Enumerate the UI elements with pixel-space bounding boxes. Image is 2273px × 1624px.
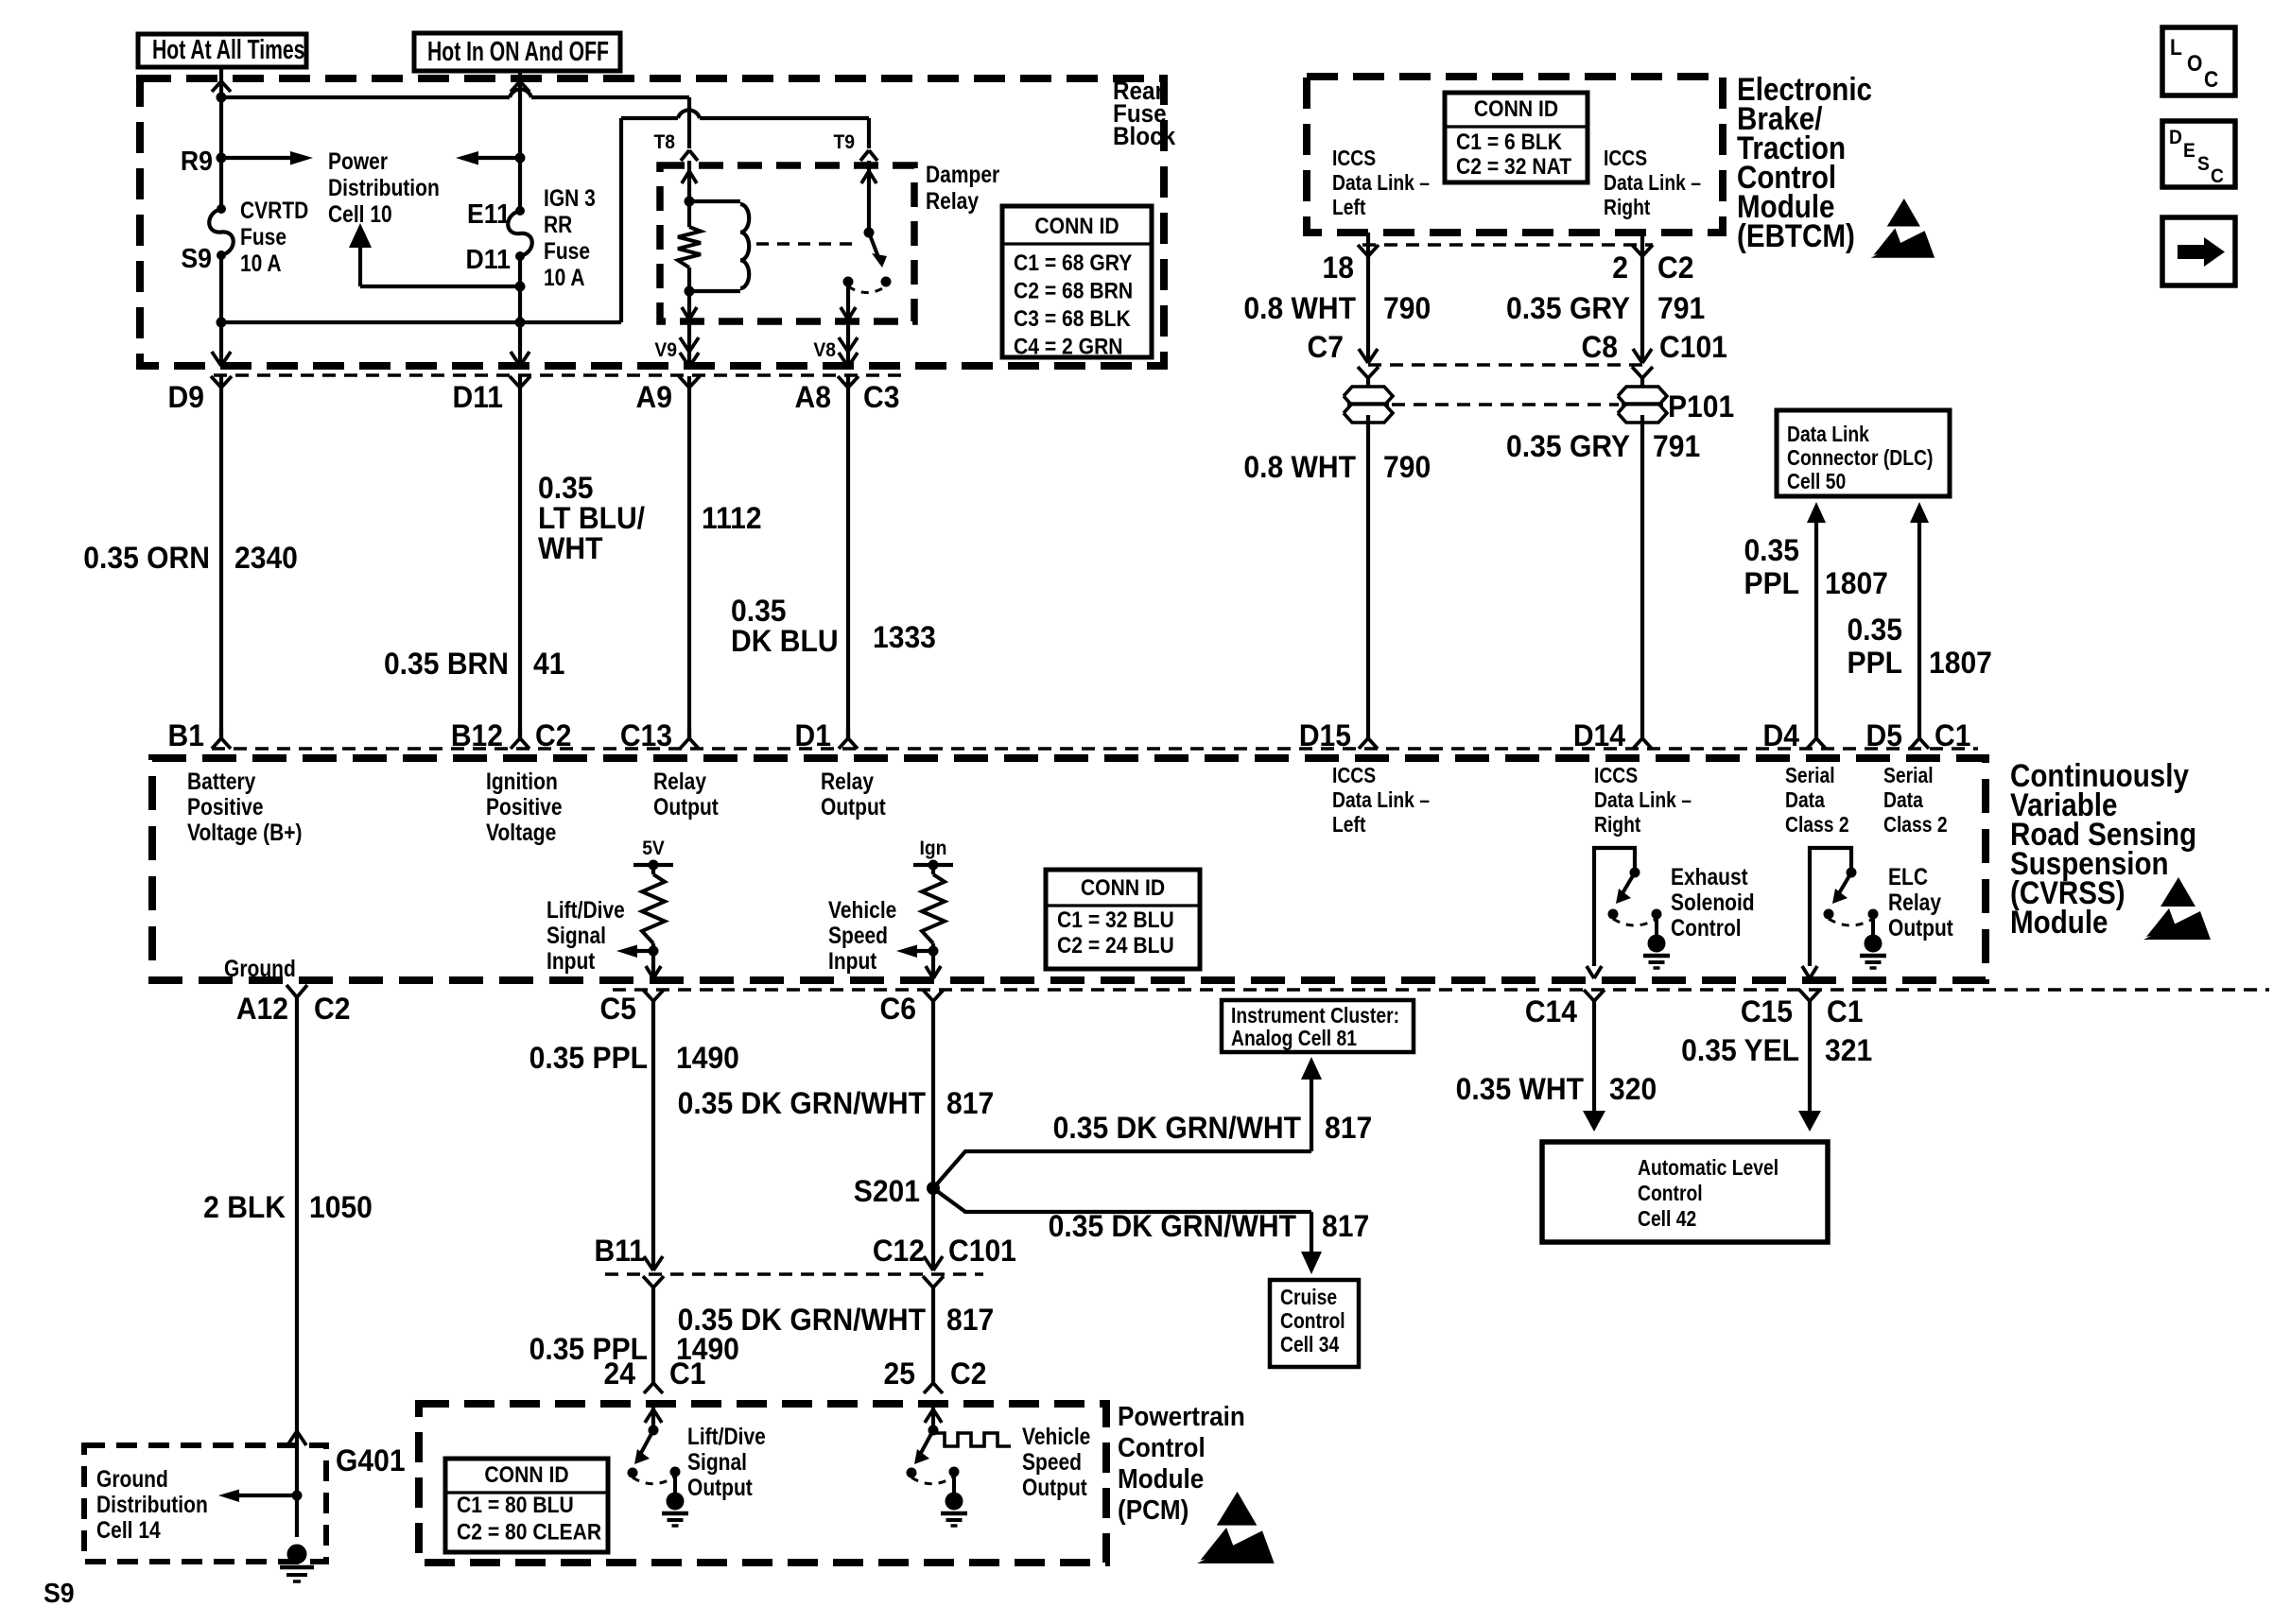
- svg-text:0.35 GRY: 0.35 GRY: [1506, 291, 1630, 325]
- svg-text:C15: C15: [1741, 994, 1793, 1028]
- label Lift/Dive Signal Input: [547, 896, 625, 974]
- connector line C7/C8: [1368, 363, 1642, 366]
- wire battery feed from Hot At All Times: [219, 67, 223, 208]
- arrow out of damper relay (left): [682, 307, 697, 320]
- contact node left (ELC): [1824, 909, 1834, 920]
- label 0.8 WHT (lower): [1243, 450, 1356, 484]
- wire C15 to ALC: [1798, 1000, 1821, 1132]
- label Powertrain Control Module (PCM): [1118, 1401, 1245, 1526]
- label 0.35 DK GRN/WHT (cluster): [1053, 1111, 1301, 1145]
- label pin 24: [604, 1356, 636, 1391]
- svg-text:L: L: [2170, 35, 2182, 60]
- arrow into relay (T8 side): [682, 171, 697, 183]
- svg-text:Input: Input: [547, 947, 596, 974]
- svg-text:0.35 DK GRN/WHT: 0.35 DK GRN/WHT: [678, 1086, 926, 1120]
- label 0.35 GRY: [1506, 291, 1630, 325]
- svg-text:Relay: Relay: [1888, 889, 1941, 915]
- svg-text:Data Link –: Data Link –: [1594, 789, 1692, 813]
- svg-text:0.35: 0.35: [1847, 613, 1902, 647]
- svg-text:ELC: ELC: [1888, 863, 1928, 890]
- svg-text:C1 = 68 GRY: C1 = 68 GRY: [1014, 251, 1132, 276]
- svg-text:1112: 1112: [702, 501, 762, 535]
- svg-text:320: 320: [1609, 1072, 1657, 1106]
- label D5: [1866, 718, 1902, 752]
- svg-text:B1: B1: [168, 718, 204, 752]
- switch arm (exhaust): [1616, 872, 1635, 904]
- svg-text:G401: G401: [336, 1443, 406, 1477]
- svg-text:0.35 YEL: 0.35 YEL: [1681, 1033, 1799, 1067]
- label Battery Positive Voltage (B+): [187, 768, 303, 845]
- svg-text:Speed: Speed: [1022, 1448, 1082, 1475]
- svg-text:1333: 1333: [873, 620, 936, 654]
- arrow to Power Distribution (from R9): [221, 151, 313, 165]
- connector chevron pin 2: [1632, 245, 1653, 256]
- label circuit 817 (upper): [946, 1086, 994, 1120]
- wire serial data D4 to DLC: [1807, 502, 1826, 738]
- svg-text:V8: V8: [813, 339, 836, 361]
- arrow to Vehicle Speed Input label: [896, 945, 933, 959]
- label D11: [452, 380, 503, 414]
- fuse IGN 3 RR 10A: [508, 206, 532, 261]
- connector chevron pin 25: [924, 1383, 943, 1393]
- arrow vehicle speed out of CVRSS: [926, 966, 941, 978]
- label 0.35 DK GRN/WHT (cruise): [1049, 1209, 1296, 1243]
- label 0.35 WHT: [1456, 1072, 1584, 1106]
- svg-text:S9: S9: [181, 243, 212, 273]
- svg-text:C101: C101: [948, 1234, 1016, 1268]
- connector chevron B1: [212, 728, 231, 749]
- wire EBTCM pin 18 out: [1366, 233, 1370, 360]
- bottom rail wire: [221, 320, 621, 324]
- splice node S201: [927, 1182, 940, 1195]
- wire A8 to D1: [846, 376, 850, 738]
- svg-text:B12: B12: [451, 718, 503, 752]
- connector line under CVRSS (C5..C15 row): [613, 988, 2269, 991]
- svg-text:CONN ID: CONN ID: [1081, 875, 1165, 901]
- contact dashed arc (exhaust): [1613, 919, 1657, 925]
- svg-text:10 A: 10 A: [240, 250, 282, 276]
- svg-text:ICCS: ICCS: [1604, 147, 1647, 171]
- svg-text:A8: A8: [795, 380, 831, 414]
- svg-text:Damper: Damper: [926, 161, 999, 187]
- label C2 (EBTCM conn): [1657, 251, 1693, 285]
- connector chevron C5: [643, 990, 664, 1001]
- svg-text:817: 817: [1322, 1209, 1369, 1243]
- wire C12 to pin 25: [931, 1287, 935, 1383]
- arrow ELC out of CVRSS: [1802, 966, 1817, 978]
- svg-text:Block: Block: [1113, 123, 1176, 150]
- svg-text:C3: C3: [863, 380, 899, 414]
- Ign supply rail: [913, 860, 953, 871]
- svg-text:S201: S201: [854, 1174, 920, 1208]
- svg-text:817: 817: [946, 1303, 994, 1337]
- wire relay out to box bottom: [687, 291, 691, 320]
- connector chevron C14: [1584, 990, 1605, 1001]
- svg-text:D5: D5: [1866, 718, 1902, 752]
- pull-up resistor (lift/dive): [642, 865, 665, 951]
- splice connector P101 left: [1344, 387, 1393, 423]
- label circuit 817 (cruise): [1322, 1209, 1369, 1243]
- svg-text:R9: R9: [181, 146, 213, 176]
- svg-text:D: D: [2169, 127, 2182, 148]
- svg-text:C2: C2: [535, 718, 571, 752]
- node R9: [217, 153, 227, 164]
- Instrument Cluster box: [1222, 1000, 1414, 1052]
- label 0.35 PPL (upper): [529, 1041, 648, 1075]
- svg-text:Fuse: Fuse: [544, 237, 590, 264]
- label C8: [1582, 330, 1618, 364]
- arrow to Lift/Dive Signal Input label: [616, 945, 653, 959]
- label V8: [813, 339, 836, 361]
- svg-text:C1: C1: [1827, 994, 1863, 1028]
- wire D11 to B12: [518, 376, 522, 738]
- svg-text:Output: Output: [1888, 914, 1953, 941]
- svg-text:Control: Control: [1118, 1432, 1206, 1463]
- relay coil loop: [689, 201, 749, 291]
- switch arm (ELC): [1832, 872, 1851, 904]
- svg-text:Right: Right: [1594, 814, 1640, 838]
- svg-text:24: 24: [604, 1356, 636, 1391]
- svg-text:1050: 1050: [309, 1190, 373, 1224]
- svg-text:B11: B11: [594, 1234, 645, 1268]
- label B11: [594, 1234, 645, 1268]
- svg-text:Control: Control: [1638, 1183, 1703, 1206]
- svg-text:C6: C6: [880, 992, 916, 1026]
- wire T9 feed horizontal: [700, 116, 869, 120]
- svg-text:C7: C7: [1308, 330, 1344, 364]
- svg-text:2340: 2340: [234, 541, 298, 575]
- ESD symbol (PCM): [1197, 1492, 1275, 1564]
- connector chevron D5: [1910, 738, 1929, 749]
- label C101 (PCM inline conn): [948, 1234, 1016, 1268]
- svg-text:Output: Output: [1022, 1474, 1087, 1500]
- svg-text:0.8 WHT: 0.8 WHT: [1243, 450, 1356, 484]
- label circuit 1490 (upper): [676, 1041, 739, 1075]
- arrow C12: [924, 1256, 943, 1270]
- label C3: [863, 380, 899, 414]
- ground distribution dashed box: [84, 1445, 326, 1562]
- label Ign: [920, 838, 947, 859]
- LOC reference icon: [2162, 27, 2235, 95]
- wire lift/dive to CVRSS edge: [651, 951, 655, 978]
- wire C8 to P101: [1640, 377, 1644, 394]
- svg-text:0.35 DK GRN/WHT: 0.35 DK GRN/WHT: [1053, 1111, 1301, 1145]
- svg-text:Exhaust: Exhaust: [1671, 863, 1748, 890]
- svg-text:Signal: Signal: [687, 1448, 747, 1475]
- EBTCM dashed boundary box: [1307, 77, 1723, 233]
- wire D9 to B1: [219, 376, 223, 738]
- label Lift/Dive Signal Output: [687, 1423, 766, 1500]
- svg-text:Automatic Level: Automatic Level: [1638, 1157, 1778, 1181]
- arrow to Ground Distribution label: [218, 1490, 297, 1503]
- CONN ID table (PCM): [445, 1459, 608, 1552]
- svg-text:WHT: WHT: [538, 531, 603, 565]
- label 5V: [642, 838, 665, 859]
- label C1 (serial data conn): [1935, 718, 1970, 752]
- svg-text:790: 790: [1383, 450, 1431, 484]
- label Rear Fuse Block: [1113, 78, 1176, 150]
- connector chevron A9: [679, 376, 700, 388]
- label circuit 1807 (D4): [1825, 566, 1888, 600]
- label D14: [1573, 718, 1626, 752]
- connector line at CVRSS top (B1..C1 row): [212, 747, 1978, 750]
- svg-text:C8: C8: [1582, 330, 1618, 364]
- svg-text:Left: Left: [1332, 814, 1365, 838]
- label 0.35 LT BLU/ WHT: [538, 471, 645, 565]
- svg-text:Solenoid: Solenoid: [1671, 889, 1755, 915]
- rear fuse block dashed boundary box: [140, 78, 1164, 366]
- wire contact to box bottom: [846, 282, 850, 320]
- label D11 fuse pin: [466, 244, 511, 274]
- svg-text:ICCS: ICCS: [1594, 765, 1638, 788]
- label Ground Distribution Cell 14: [96, 1465, 208, 1543]
- svg-text:O: O: [2187, 51, 2202, 77]
- label C7: [1308, 330, 1344, 364]
- svg-text:C2: C2: [314, 992, 350, 1026]
- connector chevron below C12: [923, 1276, 944, 1287]
- svg-text:(PCM): (PCM): [1118, 1494, 1189, 1526]
- wire top branch to T8: [221, 97, 689, 148]
- vehicle speed output switch wire: [925, 1408, 942, 1430]
- damper relay resistor: [678, 227, 701, 268]
- svg-text:1490: 1490: [676, 1041, 739, 1075]
- label circuit 41: [533, 647, 564, 681]
- svg-text:CONN ID: CONN ID: [484, 1462, 568, 1488]
- svg-text:(EBTCM): (EBTCM): [1737, 217, 1855, 253]
- svg-text:817: 817: [946, 1086, 994, 1120]
- connector chevron pin 18: [1358, 245, 1379, 256]
- svg-text:C: C: [2211, 165, 2224, 187]
- label circuit 790: [1383, 291, 1431, 325]
- label S9 (page ref): [43, 1578, 75, 1608]
- lift/dive output switch wire: [645, 1408, 662, 1430]
- wire C14 to ALC: [1583, 1000, 1605, 1132]
- label pin 25: [884, 1356, 915, 1391]
- label circuit 1807 (D5): [1929, 646, 1992, 680]
- hop arch T9 feed over T8 wire: [678, 110, 700, 118]
- svg-text:Lift/Dive: Lift/Dive: [687, 1423, 766, 1449]
- connector chevron D9: [211, 376, 232, 388]
- switch contact dashed arc: [848, 286, 886, 293]
- relay actuation dashed line: [756, 242, 859, 245]
- connector chevron C15: [1799, 990, 1820, 1001]
- wire T8 into damper relay: [687, 161, 691, 201]
- svg-text:Data Link –: Data Link –: [1332, 789, 1430, 813]
- svg-text:Distribution: Distribution: [96, 1491, 208, 1517]
- label 0.35 PPL (D5): [1847, 613, 1902, 680]
- label Relay Output (1): [653, 768, 719, 820]
- connector chevron C13: [680, 728, 699, 749]
- svg-text:Cell 14: Cell 14: [96, 1516, 161, 1543]
- wire exits fuse block (ignition) arrow: [511, 352, 529, 366]
- ELC relay output hook wire: [1810, 848, 1851, 966]
- svg-text:C5: C5: [600, 992, 636, 1026]
- svg-text:A12: A12: [236, 992, 288, 1026]
- label Power Distribution Cell 10: [328, 147, 440, 227]
- label V9: [654, 339, 677, 361]
- svg-text:Class 2: Class 2: [1785, 814, 1849, 838]
- splice connector P101 right: [1618, 387, 1667, 423]
- label ELC Relay Output: [1888, 863, 1953, 941]
- wire C6 to S201: [931, 1000, 935, 1188]
- contact dashed arc (lift/dive): [633, 1477, 675, 1484]
- svg-text:LT BLU/: LT BLU/: [538, 501, 645, 535]
- contact dashed arc (ELC): [1829, 919, 1873, 925]
- P101 splice dashed link: [1392, 403, 1619, 406]
- svg-text:Powertrain: Powertrain: [1118, 1401, 1245, 1432]
- svg-text:C2 = 80 CLEAR: C2 = 80 CLEAR: [457, 1519, 601, 1545]
- node lift/dive signal: [649, 946, 659, 957]
- label circuit 791 (lower): [1653, 429, 1700, 463]
- wire EBTCM pin 2 out: [1640, 233, 1644, 360]
- svg-text:IGN 3: IGN 3: [544, 184, 596, 211]
- contact node left (vspeed): [907, 1468, 917, 1478]
- label Electronic Brake/Traction Control Module (EBTCM): [1737, 71, 1872, 253]
- label A12: [236, 992, 288, 1026]
- switch contact node right: [881, 277, 892, 287]
- label A9: [636, 380, 672, 414]
- connector chevron B12: [511, 728, 529, 749]
- Cruise Control box: [1270, 1280, 1359, 1367]
- switch pivot node (ELC): [1847, 868, 1857, 878]
- label 0.35 PPL (D4): [1744, 533, 1799, 600]
- svg-text:Vehicle: Vehicle: [1022, 1423, 1091, 1449]
- label circuit 1112: [702, 501, 762, 535]
- svg-text:Module: Module: [1118, 1463, 1204, 1494]
- label 0.35 DK GRN/WHT (lower): [678, 1303, 926, 1337]
- label D9: [168, 380, 204, 414]
- node relay coil bottom: [685, 286, 695, 297]
- label Exhaust Solenoid Control: [1671, 863, 1755, 941]
- svg-text:Ign: Ign: [920, 838, 947, 859]
- svg-text:Ground: Ground: [96, 1465, 168, 1492]
- wire resistor stub top: [687, 201, 691, 291]
- switch contact node left: [843, 277, 854, 287]
- svg-text:Cruise: Cruise: [1280, 1287, 1337, 1310]
- label Ground: [224, 955, 296, 981]
- PCM dashed boundary box: [419, 1404, 1106, 1563]
- label 0.35 ORN: [83, 541, 210, 575]
- svg-text:D4: D4: [1763, 718, 1800, 752]
- svg-text:C3 = 68 BLK: C3 = 68 BLK: [1014, 306, 1131, 332]
- svg-text:791: 791: [1653, 429, 1700, 463]
- ground symbol (lift/dive output): [662, 1472, 688, 1526]
- svg-text:1807: 1807: [1825, 566, 1888, 600]
- connector chevron D14: [1633, 738, 1652, 749]
- svg-text:Data Link –: Data Link –: [1332, 172, 1430, 196]
- svg-text:Positive: Positive: [486, 793, 563, 820]
- connector chevron D4: [1807, 738, 1826, 749]
- label ICCS Data Link - Left (EBTCM): [1332, 147, 1430, 220]
- label circuit 790 (lower): [1383, 450, 1431, 484]
- connector chevron into fuse block (ignition): [511, 81, 529, 92]
- label T9: [833, 131, 855, 153]
- svg-text:321: 321: [1825, 1033, 1872, 1067]
- svg-text:18: 18: [1323, 251, 1354, 285]
- svg-text:Output: Output: [653, 793, 719, 820]
- label 0.35 DK BLU: [731, 594, 839, 658]
- junction node battery/T8 branch: [217, 93, 227, 103]
- svg-text:C14: C14: [1525, 994, 1578, 1028]
- label S201: [854, 1174, 920, 1208]
- svg-text:C2 = 68 BRN: C2 = 68 BRN: [1014, 278, 1133, 303]
- svg-text:C1: C1: [669, 1356, 705, 1391]
- label 0.8 WHT: [1243, 291, 1356, 325]
- label T8: [653, 131, 675, 153]
- label circuit 320: [1609, 1072, 1657, 1106]
- svg-text:Ignition: Ignition: [486, 768, 558, 794]
- hop arch battery branch over ignition wire: [510, 89, 531, 97]
- square wave symbol: [933, 1433, 1011, 1446]
- svg-text:Hot At All Times: Hot At All Times: [152, 35, 304, 65]
- svg-text:ICCS: ICCS: [1332, 765, 1376, 788]
- label circuit 791: [1657, 291, 1705, 325]
- label Continuously Variable Road Sensing Suspension (CVRSS) Module: [2010, 757, 2196, 940]
- label Vehicle Speed Input: [828, 896, 897, 974]
- label 0.35 GRY (lower): [1506, 429, 1630, 463]
- ground symbol G401: [280, 1545, 314, 1582]
- wire T9 into damper relay: [867, 161, 871, 233]
- label Vehicle Speed Output: [1022, 1423, 1091, 1500]
- svg-text:2 BLK: 2 BLK: [203, 1190, 286, 1224]
- contact node right (vspeed): [949, 1467, 960, 1477]
- label D15: [1299, 718, 1351, 752]
- svg-text:Relay: Relay: [926, 187, 979, 214]
- svg-text:5V: 5V: [642, 838, 665, 859]
- svg-text:0.35 DK GRN/WHT: 0.35 DK GRN/WHT: [1049, 1209, 1296, 1243]
- label box Hot In ON And OFF: [414, 33, 620, 71]
- label 0.35 PPL (lower): [529, 1332, 648, 1366]
- svg-text:Voltage (B+): Voltage (B+): [187, 819, 303, 845]
- svg-text:Cell 10: Cell 10: [328, 200, 392, 227]
- ground symbol (vspeed output): [941, 1472, 967, 1526]
- svg-text:Data: Data: [1785, 789, 1825, 813]
- CONN ID table (EBTCM): [1445, 93, 1588, 182]
- svg-text:0.35 ORN: 0.35 ORN: [83, 541, 210, 575]
- label circuit 817 (lower): [946, 1303, 994, 1337]
- wire B11 to pin 24: [651, 1287, 655, 1383]
- arrow into relay (T9 side): [861, 171, 876, 183]
- svg-text:D1: D1: [795, 718, 831, 752]
- svg-text:Control: Control: [1671, 914, 1742, 941]
- node ground distribution branch: [292, 1491, 303, 1501]
- label circuit 321: [1825, 1033, 1872, 1067]
- connector chevron T8: [681, 150, 698, 161]
- svg-text:1807: 1807: [1929, 646, 1992, 680]
- wire A12 to G401: [295, 997, 299, 1537]
- wire C5 to B11: [651, 1000, 655, 1268]
- connector chevron D1: [839, 728, 858, 749]
- svg-text:Left: Left: [1332, 197, 1365, 220]
- connector line C1 under rear fuse block: [214, 373, 908, 376]
- label circuit 1050: [309, 1190, 373, 1224]
- label pin 2: [1612, 251, 1628, 285]
- svg-text:Cell 42: Cell 42: [1638, 1208, 1696, 1232]
- svg-text:CVRTD: CVRTD: [240, 197, 308, 223]
- wire V8 segment: [846, 321, 850, 363]
- arrow lift/dive out of CVRSS: [646, 966, 661, 978]
- ESD symbol (CVRSS): [2143, 877, 2211, 940]
- wire vehicle speed to CVRSS edge: [931, 951, 935, 978]
- svg-text:Vehicle: Vehicle: [828, 896, 897, 923]
- svg-text:791: 791: [1657, 291, 1705, 325]
- svg-text:Data Link –: Data Link –: [1604, 172, 1701, 196]
- connector line EBTCM outputs (18/2 row): [1362, 243, 1653, 246]
- label C1 (ALC conn): [1827, 994, 1863, 1028]
- damper relay switch arm: [869, 233, 887, 268]
- svg-text:Cell 50: Cell 50: [1787, 471, 1846, 494]
- exhaust solenoid control hook wire: [1594, 848, 1635, 966]
